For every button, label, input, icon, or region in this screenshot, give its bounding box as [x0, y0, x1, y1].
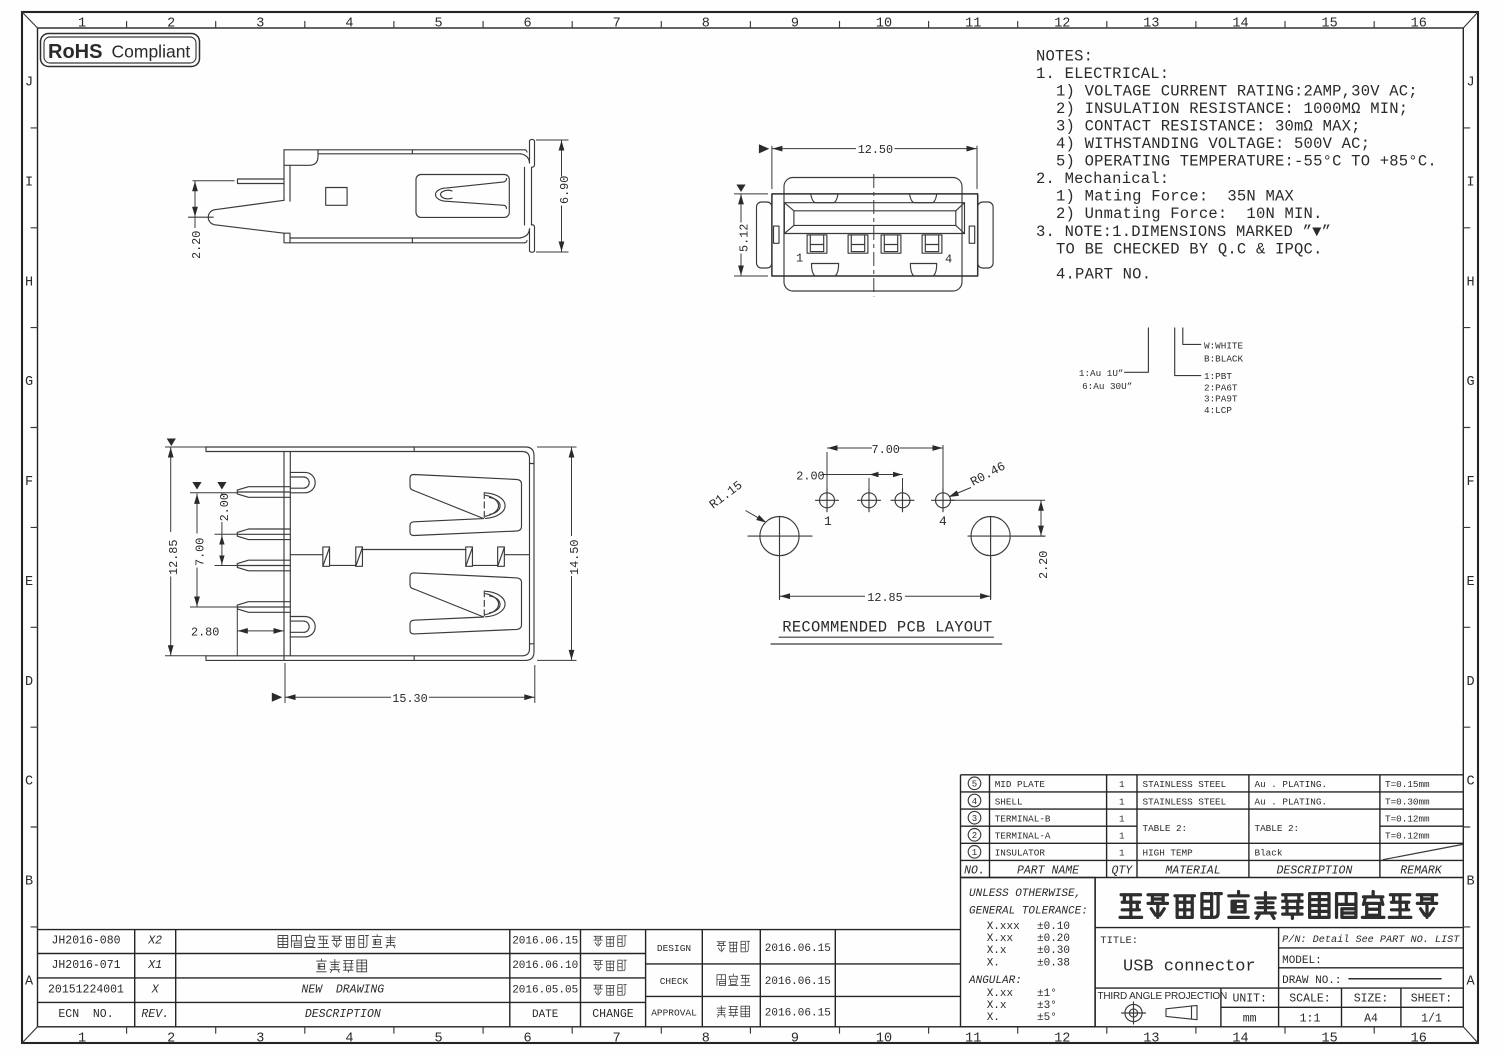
svg-text:1. ELECTRICAL:: 1. ELECTRICAL: [1036, 65, 1169, 83]
pcb layout: pin hole 2 [862, 493, 877, 508]
svg-text:NO.: NO. [964, 864, 985, 877]
side view: solder pin [238, 179, 285, 184]
svg-text:1) Mating Force: 35N MAX: 1) Mating Force: 35N MAX [1056, 188, 1295, 206]
svg-text:UNIT:: UNIT: [1232, 993, 1267, 1006]
svg-text:B: B [1466, 875, 1474, 890]
pin center extension ticks [190, 492, 237, 494]
svg-text:2.00: 2.00 [218, 493, 232, 521]
svg-text:F: F [1466, 475, 1474, 490]
svg-text:X.: X. [987, 957, 1000, 969]
side view: bottom-left block [284, 233, 290, 243]
svg-text:14: 14 [1232, 1032, 1248, 1047]
svg-text:2016.05.05: 2016.05.05 [512, 984, 578, 996]
dimension 7.00 (top view) [192, 482, 201, 490]
unit/scale/size/sheet [1232, 993, 1452, 1026]
top view: lock tab 4 [498, 547, 505, 566]
svg-text:2: 2 [167, 17, 175, 32]
svg-text:Black: Black [1255, 848, 1283, 859]
svg-text:TERMINAL-B: TERMINAL-B [995, 814, 1051, 825]
svg-text:P/N: Detail See PART NO. LIST: P/N: Detail See PART NO. LIST [1282, 934, 1460, 946]
svg-text:W:WHITE: W:WHITE [1204, 340, 1243, 351]
svg-text:HIGH TEMP: HIGH TEMP [1143, 848, 1194, 859]
svg-text:C: C [25, 775, 33, 790]
svg-text:1: 1 [1119, 796, 1125, 807]
svg-text:1: 1 [78, 1032, 86, 1047]
svg-text:REMARK: REMARK [1400, 864, 1443, 877]
svg-text:SCALE:: SCALE: [1289, 993, 1330, 1006]
svg-text:12.50: 12.50 [858, 143, 893, 157]
front view: vertical centerline [873, 174, 875, 297]
top view: leaf springs (V-shape) [410, 475, 522, 536]
svg-text:8: 8 [702, 1032, 710, 1047]
svg-text:1: 1 [78, 17, 86, 32]
svg-text:4: 4 [345, 17, 353, 32]
svg-text:MATERIAL: MATERIAL [1165, 864, 1220, 877]
svg-text:UNLESS OTHERWISE,: UNLESS OTHERWISE, [969, 888, 1081, 900]
svg-text:D: D [1466, 675, 1474, 690]
svg-text:THIRD ANGLE PROJECTION: THIRD ANGLE PROJECTION [1098, 991, 1228, 1002]
svg-text:X1: X1 [147, 959, 162, 972]
pcb layout: pin hole 3 [895, 493, 910, 508]
svg-text:±1°: ±1° [1037, 988, 1057, 1000]
svg-text:TERMINAL-A: TERMINAL-A [995, 831, 1051, 842]
svg-text:X.x: X.x [987, 1000, 1007, 1012]
svg-text:SHEET:: SHEET: [1411, 993, 1452, 1006]
side view: tapered nose [208, 200, 284, 233]
svg-text:1: 1 [1119, 848, 1125, 859]
svg-text:13: 13 [1143, 17, 1159, 32]
front view: contact pin 4 [922, 235, 942, 253]
svg-text:STAINLESS STEEL: STAINLESS STEEL [1143, 779, 1227, 790]
svg-text:X: X [151, 983, 160, 996]
svg-text:X2: X2 [147, 935, 162, 948]
top view: upper wall hook [290, 472, 315, 492]
svg-text:4: 4 [945, 253, 952, 267]
side view: top-left mounting block [284, 150, 318, 166]
svg-text:E: E [25, 575, 33, 590]
svg-text:X.xx: X.xx [987, 933, 1014, 945]
svg-text:1:Au 1U”: 1:Au 1U” [1079, 368, 1124, 379]
svg-text:2.00: 2.00 [796, 470, 824, 484]
svg-text:4: 4 [939, 514, 947, 529]
svg-text:TABLE 2:: TABLE 2: [1143, 823, 1188, 834]
svg-text:1) VOLTAGE CURRENT RATING:2AMP: 1) VOLTAGE CURRENT RATING:2AMP,30V AC; [1056, 82, 1418, 100]
svg-text:1: 1 [972, 848, 977, 858]
svg-text:6:Au 30U”: 6:Au 30U” [1082, 381, 1132, 392]
svg-text:8: 8 [702, 17, 710, 32]
part-number legend: color branch [1183, 328, 1201, 345]
svg-text:JH2016-080: JH2016-080 [51, 935, 120, 948]
side view: left wall [283, 165, 285, 200]
svg-text:RoHS: RoHS [48, 41, 102, 63]
svg-text:4) WITHSTANDING VOLTAGE: 500V: 4) WITHSTANDING VOLTAGE: 500V AC; [1056, 135, 1370, 153]
front view: bottom latch windows [812, 264, 839, 276]
svg-text:1: 1 [824, 514, 832, 529]
svg-text:J: J [25, 76, 33, 91]
dimension 14.50 (top view) [537, 446, 577, 448]
svg-text:2016.06.15: 2016.06.15 [765, 943, 831, 955]
tolerance block [961, 878, 1096, 1027]
top view: body left wall [283, 452, 285, 661]
dimension 12.85 (top view) [167, 439, 176, 447]
svg-text:X.xx: X.xx [987, 988, 1014, 1000]
svg-text:JH2016-071: JH2016-071 [51, 959, 120, 972]
svg-text:16: 16 [1411, 1032, 1427, 1047]
svg-text:T=0.15mm: T=0.15mm [1385, 779, 1430, 790]
svg-text:3: 3 [256, 17, 264, 32]
svg-text:3: 3 [256, 1032, 264, 1047]
side view: leaf spring contact [416, 175, 509, 218]
svg-text:2016.06.15: 2016.06.15 [512, 936, 578, 948]
front view: side windows [774, 226, 780, 243]
svg-text:T=0.12mm: T=0.12mm [1385, 814, 1430, 825]
svg-text:NOTES:: NOTES: [1036, 47, 1093, 65]
svg-text:10: 10 [876, 1032, 892, 1047]
svg-text:11: 11 [965, 17, 981, 32]
pcb layout: dimension 2.00 [868, 478, 870, 492]
svg-text:A4: A4 [1364, 1012, 1378, 1025]
corner diagonals [22, 12, 38, 28]
svg-text:DRAW NO.:: DRAW NO.: [1282, 975, 1341, 987]
svg-text:I: I [1466, 175, 1474, 190]
svg-text:5: 5 [434, 17, 442, 32]
svg-text:1: 1 [1119, 779, 1125, 790]
svg-text:3: 3 [972, 814, 977, 824]
svg-text:RECOMMENDED PCB LAYOUT: RECOMMENDED PCB LAYOUT [782, 619, 992, 637]
svg-text:5.12: 5.12 [738, 224, 752, 252]
pcb layout: pin hole 4 [936, 493, 951, 508]
dimension 15.30 (top view) [272, 693, 283, 702]
svg-text:MODEL:: MODEL: [1282, 955, 1322, 967]
svg-text:15: 15 [1321, 17, 1337, 32]
svg-text:±0.20: ±0.20 [1037, 933, 1070, 945]
side view: shell outline [284, 149, 525, 151]
svg-text:2.80: 2.80 [191, 626, 219, 640]
svg-text:4:LCP: 4:LCP [1204, 405, 1232, 416]
svg-text:H: H [1466, 275, 1474, 290]
front view: contact pin 2 [848, 235, 868, 253]
svg-text:1:1: 1:1 [1300, 1012, 1321, 1025]
svg-text:T=0.12mm: T=0.12mm [1385, 831, 1430, 842]
front view: contact pin 3 [881, 235, 901, 253]
svg-text:1/1: 1/1 [1421, 1012, 1442, 1025]
top view: terminal pin 2 [237, 529, 290, 540]
svg-text:mm: mm [1243, 1012, 1257, 1025]
BOM parts table [961, 774, 1464, 776]
svg-text:2.20: 2.20 [190, 231, 204, 259]
svg-text:X.xxx: X.xxx [987, 921, 1020, 933]
svg-text:2016.06.10: 2016.06.10 [512, 960, 578, 972]
svg-text:1: 1 [1119, 814, 1125, 825]
svg-text:9: 9 [791, 17, 799, 32]
svg-text:9: 9 [791, 1032, 799, 1047]
front view: shell body [772, 194, 978, 276]
svg-text:NEW DRAWING: NEW DRAWING [301, 983, 384, 996]
pcb layout: pin hole 1 [820, 493, 835, 508]
svg-text:STAINLESS STEEL: STAINLESS STEEL [1143, 796, 1227, 807]
svg-text:12: 12 [1054, 1032, 1070, 1047]
top view: terminal pin 4 [237, 602, 290, 613]
svg-text:G: G [1466, 375, 1474, 390]
top view: lock tab 1 [323, 547, 330, 566]
svg-text:14: 14 [1232, 17, 1248, 32]
svg-text:4: 4 [972, 797, 977, 807]
svg-text:C: C [1466, 775, 1474, 790]
svg-text:CHECK: CHECK [660, 976, 689, 987]
dimension 12.50 (front view) [759, 144, 769, 153]
dimension 2.00 (top view) [217, 482, 226, 490]
svg-text:5) OPERATING TEMPERATURE:-55°C: 5) OPERATING TEMPERATURE:-55°C TO +85°C. [1056, 153, 1437, 171]
side view: inner window [326, 188, 347, 206]
svg-text:INSULATOR: INSULATOR [995, 848, 1046, 859]
revision CJK descriptions [278, 935, 395, 948]
top view: mid fold line with lock tabs [290, 554, 323, 556]
top view: lock tab 2 [356, 547, 363, 566]
svg-text:J: J [1466, 76, 1474, 91]
svg-text:1:PBT: 1:PBT [1204, 371, 1232, 382]
pcb layout: mounting holes [760, 517, 799, 556]
front view: outer flange (rounded) [784, 178, 962, 292]
svg-text:TITLE:: TITLE: [1100, 935, 1138, 947]
svg-text:B: B [25, 875, 33, 890]
svg-text:16: 16 [1411, 17, 1427, 32]
pcb layout: dimension 12.85 [779, 557, 781, 600]
top view: lower leaf spring [410, 573, 522, 634]
svg-text:A: A [25, 975, 34, 990]
svg-text:X.x: X.x [987, 945, 1007, 957]
svg-text:2) INSULATION RESISTANCE: 1000: 2) INSULATION RESISTANCE: 1000MΩ MIN; [1056, 100, 1408, 118]
revision table text [48, 935, 634, 1021]
svg-text:5: 5 [972, 780, 977, 790]
svg-text:PART NAME: PART NAME [1017, 864, 1079, 877]
svg-text:CHANGE: CHANGE [592, 1008, 634, 1021]
svg-text:1: 1 [796, 252, 803, 266]
svg-text:4.PART NO.: 4.PART NO. [1056, 266, 1151, 284]
svg-text:7.00: 7.00 [193, 538, 207, 566]
front view: tongue (3D slab) [784, 203, 964, 234]
pcb layout: dimension 2.20 [951, 499, 1046, 501]
svg-text:2016.06.15: 2016.06.15 [765, 976, 831, 988]
svg-text:3) CONTACT RESISTANCE: 30mΩ MA: 3) CONTACT RESISTANCE: 30mΩ MAX; [1056, 118, 1361, 136]
front view: left ear [757, 202, 772, 268]
revision table frame [38, 929, 961, 931]
svg-text:DESCRIPTION: DESCRIPTION [1276, 864, 1352, 877]
notes text block [1036, 47, 1437, 283]
svg-text:ANGULAR:: ANGULAR: [968, 975, 1022, 987]
svg-text:12.85: 12.85 [167, 540, 181, 575]
svg-text:5: 5 [434, 1032, 442, 1047]
top view: terminal pin 3 [237, 560, 290, 571]
svg-text:2: 2 [167, 1032, 175, 1047]
svg-text:B:BLACK: B:BLACK [1204, 354, 1243, 365]
svg-text:±0.10: ±0.10 [1037, 921, 1070, 933]
part-number legend: Au plating branch [1125, 328, 1149, 372]
svg-text:D: D [25, 675, 33, 690]
svg-text:±0.30: ±0.30 [1037, 945, 1070, 957]
dimension 5.12 (front view) [736, 185, 745, 193]
svg-text:H: H [25, 275, 33, 290]
svg-text:11: 11 [965, 1032, 981, 1047]
top view: lower flange [206, 652, 534, 661]
svg-text:±0.38: ±0.38 [1037, 957, 1070, 969]
svg-text:7: 7 [613, 1032, 621, 1047]
svg-text:DESCRIPTION: DESCRIPTION [305, 1008, 381, 1021]
svg-text:7.00: 7.00 [872, 443, 900, 457]
svg-text:E: E [1466, 575, 1474, 590]
top view: right wall [533, 456, 535, 652]
svg-text:15: 15 [1321, 1032, 1337, 1047]
top view: lock tab 3 [466, 547, 473, 566]
svg-text:Compliant: Compliant [112, 42, 191, 62]
svg-text:T=0.30mm: T=0.30mm [1385, 796, 1430, 807]
top view: terminal pin 1 [237, 487, 290, 498]
svg-text:3:PA9T: 3:PA9T [1204, 393, 1238, 404]
svg-text:USB connector: USB connector [1123, 958, 1256, 977]
title block frame [1094, 878, 1096, 1027]
dimension 2.80 (top view) [236, 609, 238, 657]
svg-text:7: 7 [613, 17, 621, 32]
svg-text:14.50: 14.50 [568, 540, 582, 575]
svg-text:±3°: ±3° [1037, 1000, 1057, 1012]
svg-text:12: 12 [1054, 17, 1070, 32]
svg-text:±5°: ±5° [1037, 1012, 1057, 1024]
svg-text:G: G [25, 375, 33, 390]
top view: lower wall hook [290, 617, 315, 637]
svg-text:2.20: 2.20 [1037, 551, 1051, 579]
svg-text:13: 13 [1143, 1032, 1159, 1047]
svg-text:SIZE:: SIZE: [1354, 993, 1389, 1006]
approval block text [651, 943, 831, 1020]
svg-text:6.90: 6.90 [558, 176, 572, 204]
pcb layout: dimension 7.00 [826, 452, 828, 492]
svg-text:DESIGN: DESIGN [657, 943, 691, 954]
svg-text:X.: X. [987, 1012, 1000, 1024]
svg-text:MID PLATE: MID PLATE [995, 779, 1046, 790]
svg-text:APPROVAL: APPROVAL [651, 1008, 697, 1019]
svg-text:QTY: QTY [1111, 864, 1133, 877]
svg-text:3. NOTE:1.DIMENSIONS MARKED ”▼: 3. NOTE:1.DIMENSIONS MARKED ”▼” [1036, 223, 1331, 241]
RoHS Compliant badge [41, 34, 200, 67]
dimension 6.90 (side view) [536, 139, 569, 141]
part-number legend: material branch [1175, 328, 1201, 376]
svg-text:F: F [25, 475, 33, 490]
svg-text:4: 4 [345, 1032, 353, 1047]
svg-text:12.85: 12.85 [867, 591, 902, 605]
top view: upper flange [206, 447, 534, 456]
svg-text:6: 6 [524, 17, 532, 32]
side view: bottom lines [290, 237, 521, 239]
front view: contact pin 1 [807, 235, 827, 253]
svg-text:I: I [25, 175, 33, 190]
svg-text:20151224001: 20151224001 [48, 983, 124, 996]
dimension 2.20 (side view) [193, 180, 235, 182]
company name (CJK) [1120, 892, 1437, 919]
svg-text:DATE: DATE [532, 1009, 559, 1021]
front view: top latch windows [811, 194, 838, 203]
svg-text:15.30: 15.30 [392, 692, 427, 706]
svg-text:Au . PLATING.: Au . PLATING. [1255, 796, 1328, 807]
svg-text:SHELL: SHELL [995, 796, 1023, 807]
svg-text:A: A [1466, 975, 1475, 990]
svg-text:REV.: REV. [141, 1008, 169, 1021]
front view: right ear [978, 202, 993, 268]
svg-text:TO BE CHECKED BY Q.C & IPQC.: TO BE CHECKED BY Q.C & IPQC. [1056, 240, 1323, 258]
side view: right end crimp and curled tabs [521, 154, 530, 163]
svg-text:2: 2 [972, 831, 977, 841]
svg-text:Au . PLATING.: Au . PLATING. [1255, 779, 1328, 790]
svg-text:2) Unmating Force: 10N MIN.: 2) Unmating Force: 10N MIN. [1056, 205, 1323, 223]
svg-text:2. Mechanical:: 2. Mechanical: [1036, 170, 1169, 188]
svg-text:1: 1 [1119, 831, 1125, 842]
svg-text:6: 6 [524, 1032, 532, 1047]
svg-text:10: 10 [876, 17, 892, 32]
svg-text:GENERAL TOLERANCE:: GENERAL TOLERANCE: [969, 906, 1088, 918]
svg-text:ECN NO.: ECN NO. [58, 1008, 113, 1021]
svg-text:2016.06.15: 2016.06.15 [765, 1008, 831, 1020]
svg-text:TABLE 2:: TABLE 2: [1255, 823, 1300, 834]
svg-text:2:PA6T: 2:PA6T [1204, 382, 1238, 393]
